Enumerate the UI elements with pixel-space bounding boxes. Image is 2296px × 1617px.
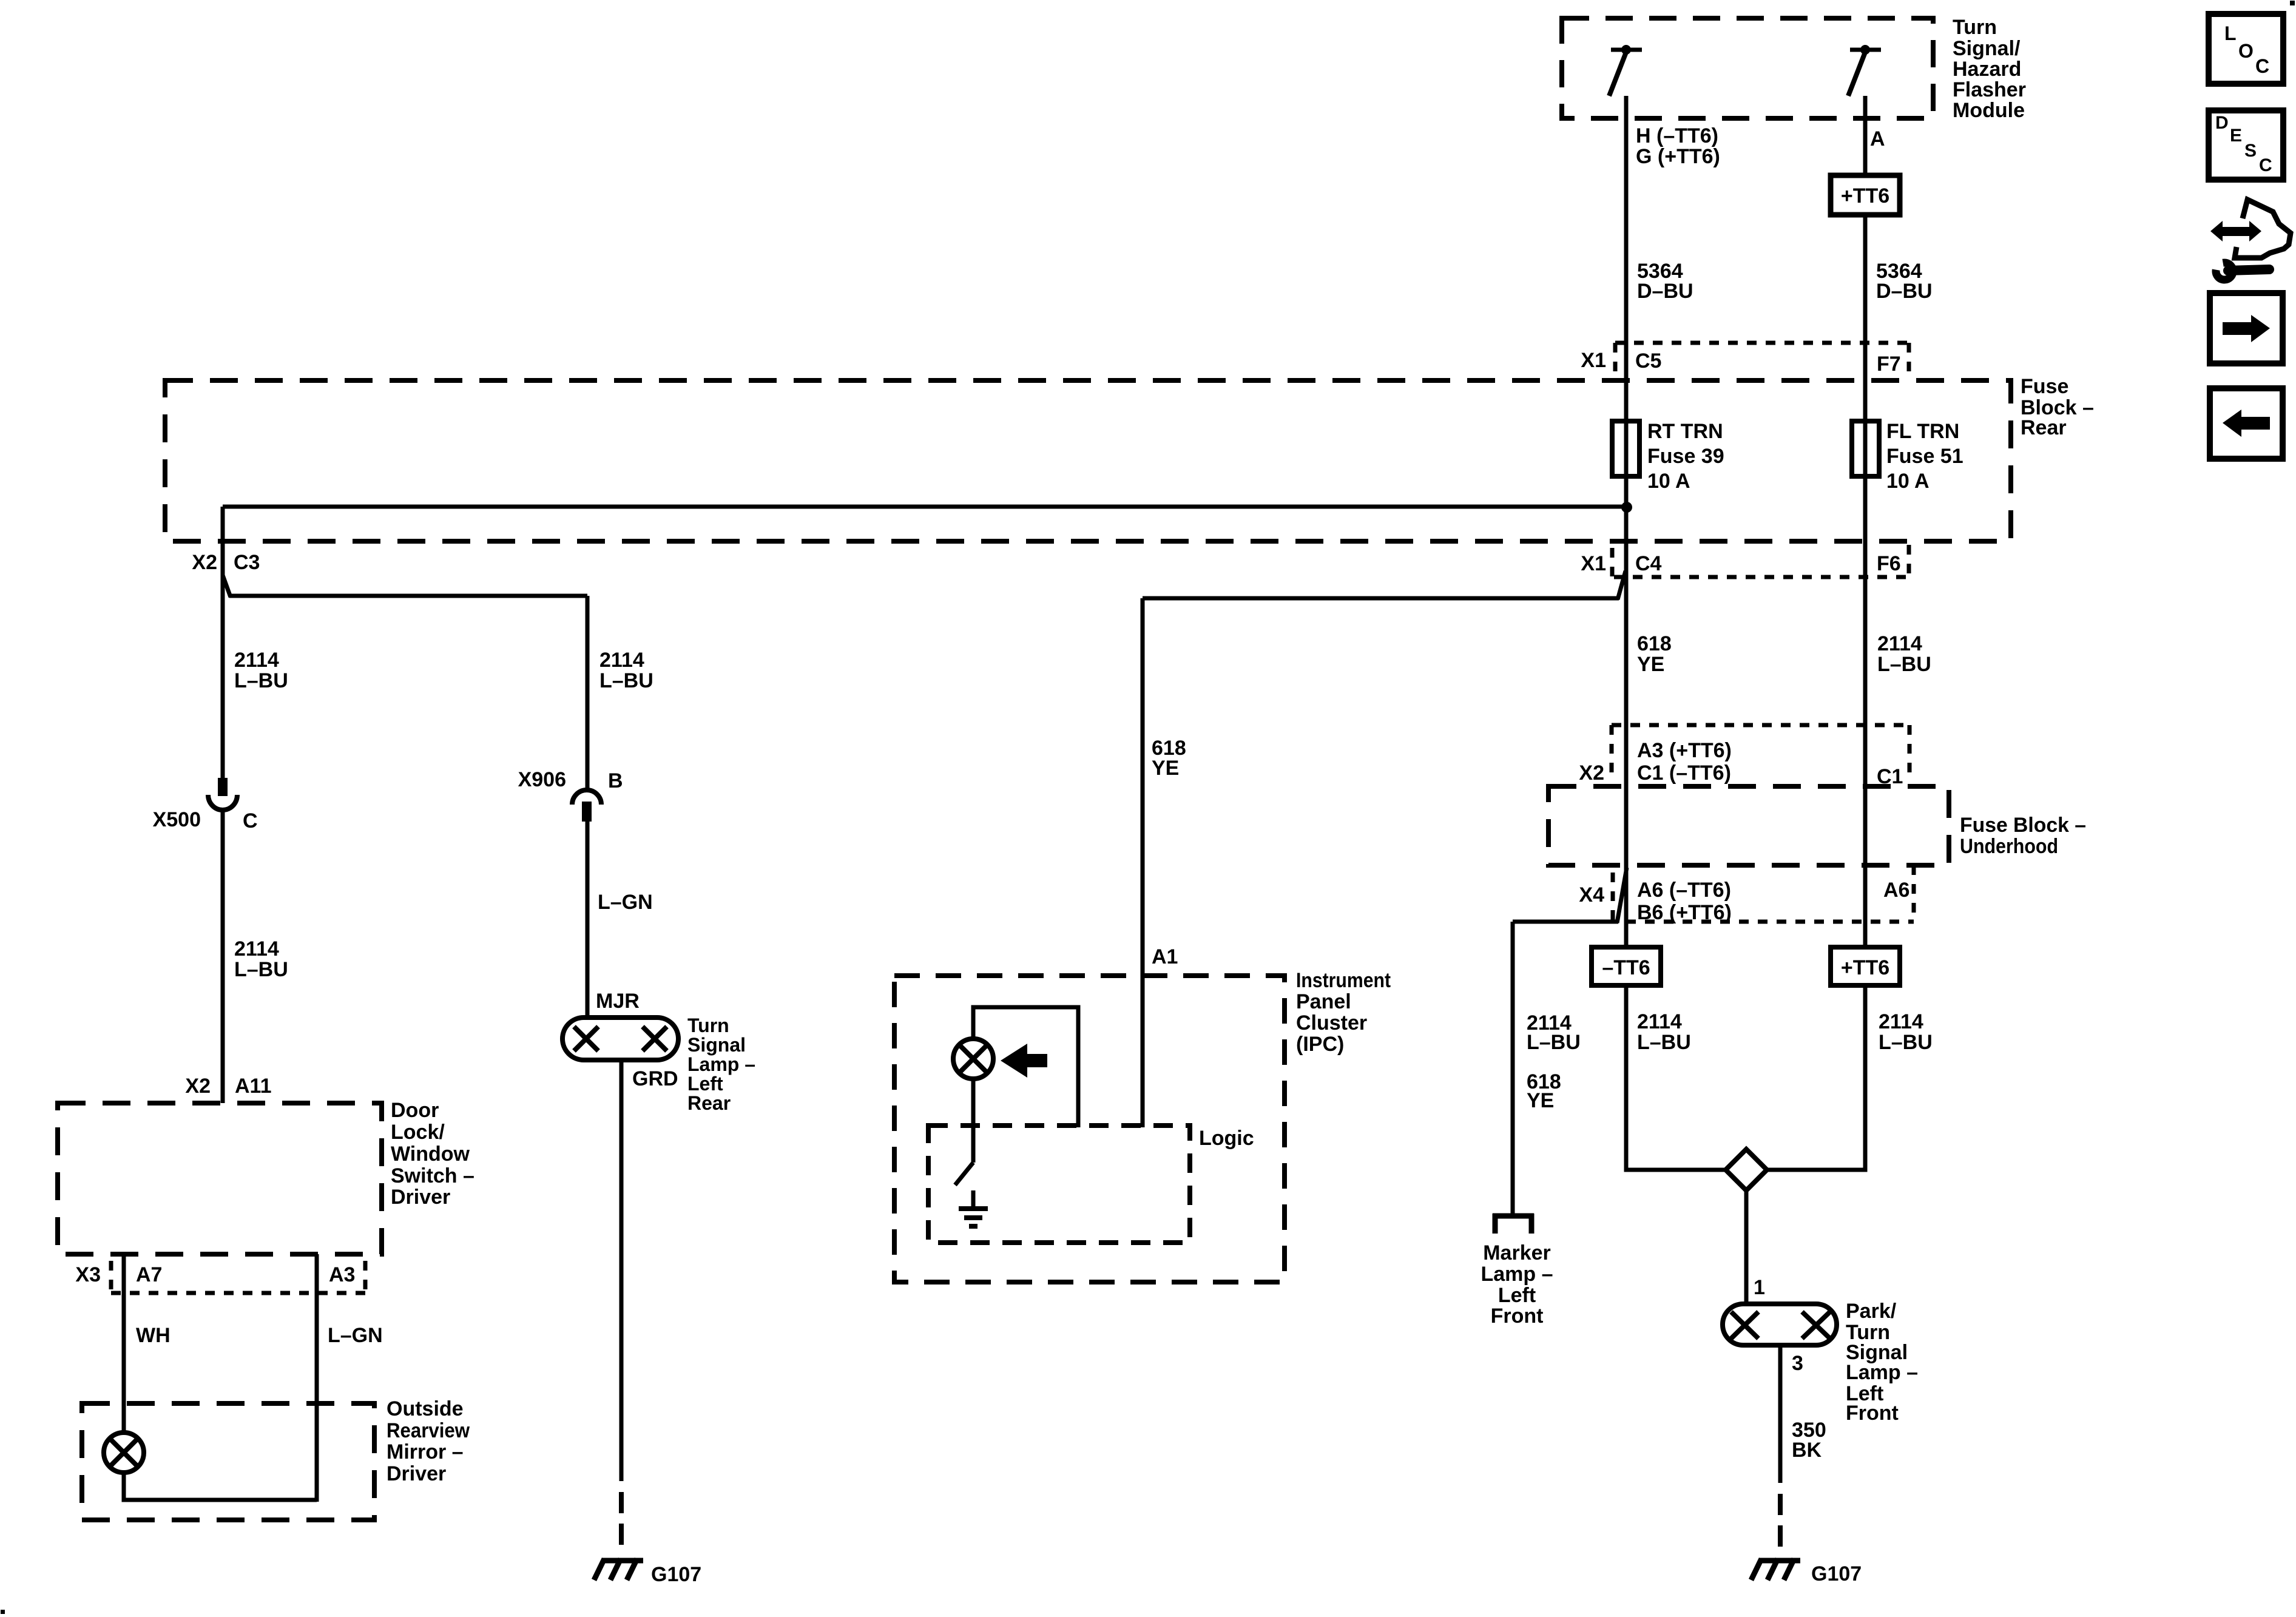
svg-text:Signal/: Signal/ — [1953, 37, 2021, 60]
flasher switch (right output A) — [1848, 45, 1881, 96]
svg-text:Turn: Turn — [1953, 16, 1997, 39]
wire jog: branch to rear lamp — [223, 575, 231, 597]
wire: long feed from fuse block to X2/C3 (left) — [223, 505, 1627, 509]
-TT6 option tag — [1592, 947, 1661, 985]
svg-text:L–BU: L–BU — [234, 958, 288, 981]
wire label 2114 L-BU (below -TT6) — [1637, 1010, 1691, 1054]
svg-text:618: 618 — [1637, 632, 1672, 655]
svg-text:D: D — [2215, 113, 2229, 133]
svg-text:YE: YE — [1152, 757, 1179, 780]
wire label 2114 L-BU (to A11) — [234, 937, 288, 981]
svg-text:X2: X2 — [1579, 761, 1604, 785]
svg-text:3: 3 — [1792, 1352, 1803, 1375]
svg-text:2114: 2114 — [234, 937, 279, 960]
ground lead (dashed) — [1778, 1494, 1783, 1553]
wire label 618 YE (below C4) — [1637, 632, 1672, 676]
wire: IPC A1 internal to logic — [973, 1007, 1078, 1127]
svg-text:Left: Left — [1498, 1284, 1536, 1307]
wire: mirror lamp return — [124, 1473, 317, 1500]
svg-text:D–BU: D–BU — [1876, 280, 1933, 303]
wire: C3 down to X500 — [221, 507, 225, 779]
wire: lamp pin 3 to ground lead — [1778, 1345, 1783, 1483]
wire: lamp to logic switch — [971, 1079, 976, 1163]
Logic box — [928, 1126, 1254, 1243]
Park/Turn Signal Lamp - Left Front (dual filament bulb) — [1723, 1304, 1837, 1345]
svg-text:Marker: Marker — [1483, 1241, 1551, 1264]
svg-text:C: C — [243, 809, 258, 832]
wire: right flasher output down to +TT6 tag — [1863, 96, 1868, 175]
svg-text:C: C — [2255, 55, 2269, 77]
connector X2 row A3/C1 (dotted) — [1612, 725, 1909, 781]
chassis ground (logic) — [959, 1190, 988, 1226]
svg-text:Outside: Outside — [387, 1397, 464, 1420]
turn indicator lamp (IPC) — [953, 1039, 993, 1079]
corner mark (bottom left) — [1, 1610, 5, 1614]
svg-text:Fuse 39: Fuse 39 — [1647, 445, 1724, 468]
svg-text:L–BU: L–BU — [599, 669, 653, 692]
Instrument Panel Cluster (IPC) box — [894, 969, 1391, 1282]
connector X1 row C5/F7 (dotted) — [1615, 343, 1909, 379]
svg-text:Fuse 51: Fuse 51 — [1886, 445, 1963, 468]
svg-text:S: S — [2244, 141, 2257, 161]
marker lamp terminal — [1493, 1214, 1534, 1234]
wire label 2114 L-BU (left of branch) — [234, 649, 288, 692]
svg-text:Cluster: Cluster — [1296, 1011, 1367, 1035]
fuse RT TRN Fuse 39 10 A — [1612, 420, 1724, 493]
label Park/Turn Signal Lamp - Left Front — [1846, 1300, 1918, 1425]
svg-text:FL TRN: FL TRN — [1886, 420, 1959, 443]
svg-text:A7: A7 — [136, 1263, 162, 1286]
connector X1 row C4/F6 (dotted) — [1612, 545, 1909, 577]
svg-text:L–BU: L–BU — [1877, 653, 1931, 676]
back (left arrow) button — [2210, 388, 2283, 459]
inline connector X906 pin B — [572, 790, 601, 822]
svg-text:+TT6: +TT6 — [1841, 956, 1889, 979]
svg-text:Driver: Driver — [391, 1186, 450, 1209]
wire: X500 down to door switch — [221, 810, 225, 1103]
svg-text:2114: 2114 — [599, 649, 644, 672]
svg-text:Lock/: Lock/ — [391, 1121, 445, 1144]
svg-text:D–BU: D–BU — [1637, 280, 1693, 303]
svg-text:–TT6: –TT6 — [1602, 956, 1650, 979]
svg-text:Turn: Turn — [687, 1014, 729, 1036]
turn arrow indicator — [1001, 1044, 1047, 1078]
svg-text:Window: Window — [391, 1143, 470, 1166]
svg-text:L–BU: L–BU — [1527, 1031, 1581, 1054]
svg-text:Left: Left — [687, 1073, 723, 1095]
svg-text:Flasher: Flasher — [1953, 78, 2026, 101]
svg-text:A11: A11 — [235, 1075, 272, 1098]
wire: rear lamp GRD down — [620, 1060, 624, 1481]
flasher switch (left output H/G) — [1609, 45, 1642, 96]
svg-text:1: 1 — [1754, 1276, 1765, 1299]
wire: A3 to mirror lamp return — [315, 1254, 319, 1502]
wire: -TT6 tag down and right to splice — [1626, 985, 1728, 1170]
svg-text:A: A — [1870, 127, 1885, 150]
service icon (part outline, double arrow, wrench) — [2210, 200, 2291, 280]
wire jog: C4 branch to IPC — [1618, 571, 1626, 599]
splice diamond — [1726, 1149, 1767, 1190]
svg-text:L–BU: L–BU — [1879, 1031, 1933, 1054]
svg-text:X2: X2 — [185, 1075, 211, 1098]
svg-text:X1: X1 — [1581, 552, 1606, 575]
svg-text:Fuse: Fuse — [2021, 375, 2068, 398]
svg-text:X1: X1 — [1581, 349, 1606, 372]
svg-text:(IPC): (IPC) — [1296, 1033, 1344, 1056]
Turn Signal Lamp - Left Rear (bulb) — [562, 1018, 678, 1060]
wire label 2114 L-BU (marker branch) — [1527, 1011, 1581, 1054]
connector X4 row A6/B6 (dotted) — [1613, 865, 1914, 922]
svg-text:C3: C3 — [234, 551, 260, 574]
wire label 350 BK — [1792, 1419, 1826, 1462]
svg-text:10 A: 10 A — [1647, 470, 1690, 493]
mirror turn signal lamp — [104, 1433, 144, 1473]
svg-text:RT TRN: RT TRN — [1647, 420, 1723, 443]
fuse FL TRN Fuse 51 10 A — [1852, 420, 1963, 493]
svg-text:C1 (–TT6): C1 (–TT6) — [1637, 761, 1731, 785]
Door Lock/Window Switch - Driver box — [58, 1099, 474, 1254]
svg-text:Rear: Rear — [2021, 416, 2067, 439]
svg-text:X3: X3 — [75, 1263, 101, 1286]
+TT6 option tag — [1831, 175, 1900, 215]
svg-text:WH: WH — [136, 1324, 171, 1347]
svg-text:C5: C5 — [1635, 349, 1661, 373]
svg-text:10 A: 10 A — [1886, 470, 1930, 493]
svg-text:Lamp –: Lamp – — [1846, 1361, 1918, 1384]
svg-text:F6: F6 — [1877, 552, 1901, 575]
wire label 618 YE (marker branch) — [1527, 1070, 1561, 1112]
wire: +TT6 tag down to fuse FL TRN — [1863, 215, 1868, 485]
svg-text:Switch –: Switch – — [391, 1164, 474, 1187]
Turn Signal/Hazard Flasher Module box — [1562, 16, 2026, 122]
ground symbol G107 (right) — [1751, 1559, 1800, 1580]
svg-text:A3 (+TT6): A3 (+TT6) — [1637, 739, 1732, 762]
ground lead (dashed, left) — [619, 1492, 624, 1553]
wire label 5364 D-BU (left) — [1637, 260, 1693, 303]
svg-text:C4: C4 — [1635, 552, 1662, 575]
svg-text:A6 (–TT6): A6 (–TT6) — [1637, 879, 1731, 902]
svg-text:L–BU: L–BU — [1637, 1031, 1691, 1054]
svg-text:A1: A1 — [1152, 945, 1178, 968]
LOC button — [2209, 14, 2283, 84]
wire label 5364 D-BU (right) — [1876, 260, 1933, 303]
svg-text:B6 (+TT6): B6 (+TT6) — [1637, 901, 1732, 924]
svg-text:O: O — [2238, 40, 2254, 62]
svg-text:C: C — [2259, 155, 2272, 175]
wire: down to IPC pin A1 — [1141, 598, 1145, 1127]
ground symbol G107 (left) — [594, 1559, 643, 1580]
svg-text:YE: YE — [1527, 1089, 1554, 1112]
svg-text:X2: X2 — [192, 551, 217, 574]
wire: marker lamp branch horizontal — [1513, 920, 1618, 924]
svg-text:E: E — [2230, 126, 2242, 146]
svg-text:A6: A6 — [1883, 879, 1909, 902]
svg-text:L–GN: L–GN — [328, 1324, 383, 1347]
svg-text:Module: Module — [1953, 99, 2025, 122]
svg-text:2114: 2114 — [1877, 632, 1922, 655]
svg-text:Underhood: Underhood — [1960, 835, 2058, 858]
svg-text:Instrument: Instrument — [1296, 969, 1391, 992]
svg-text:Rear: Rear — [687, 1092, 731, 1114]
svg-text:L: L — [2224, 22, 2237, 44]
wire: horizontal run to IPC A1 — [1143, 596, 1619, 601]
svg-text:Park/: Park/ — [1846, 1300, 1897, 1323]
wire: RT TRN fuse down through C4 to -TT6 tag — [1624, 482, 1629, 947]
wire label 2114 L-BU (below +TT6) — [1879, 1010, 1933, 1054]
svg-text:L–BU: L–BU — [234, 669, 288, 692]
svg-text:YE: YE — [1637, 653, 1664, 676]
svg-text:X500: X500 — [153, 808, 201, 831]
svg-text:L–GN: L–GN — [598, 891, 653, 914]
Outside Rearview Mirror - Driver box — [82, 1397, 470, 1520]
svg-text:Fuse Block –: Fuse Block – — [1960, 814, 2086, 837]
svg-text:Signal: Signal — [687, 1034, 746, 1056]
svg-text:BK: BK — [1792, 1439, 1822, 1462]
svg-text:A3: A3 — [329, 1263, 355, 1286]
DESC button — [2209, 110, 2283, 180]
svg-text:Lamp –: Lamp – — [687, 1053, 755, 1075]
svg-text:Logic: Logic — [1199, 1127, 1254, 1150]
label Marker Lamp - Left Front — [1481, 1241, 1553, 1328]
svg-text:Door: Door — [391, 1099, 439, 1122]
svg-text:2114: 2114 — [234, 649, 279, 672]
wire label 618 YE (IPC feed) — [1152, 737, 1186, 780]
wire: splice down to park/turn lamp — [1744, 1190, 1749, 1304]
wire: +TT6 tag down and left to splice — [1764, 985, 1865, 1170]
svg-text:2114: 2114 — [1879, 1010, 1923, 1033]
svg-text:Mirror –: Mirror – — [387, 1440, 464, 1463]
svg-text:Hazard: Hazard — [1953, 58, 2021, 81]
next (right arrow) button — [2210, 293, 2283, 363]
svg-text:Rearview: Rearview — [387, 1419, 470, 1442]
wire label 2114 L-BU (rear lamp branch) — [599, 649, 653, 692]
svg-text:F7: F7 — [1877, 353, 1901, 376]
svg-text:MJR: MJR — [596, 990, 640, 1013]
svg-text:Front: Front — [1846, 1402, 1899, 1425]
logic switch blade — [955, 1163, 973, 1185]
svg-text:+TT6: +TT6 — [1841, 184, 1889, 208]
label Turn Signal Lamp - Left Rear — [687, 1014, 755, 1114]
svg-text:Front: Front — [1491, 1305, 1544, 1328]
svg-text:Panel: Panel — [1296, 990, 1351, 1013]
wire: left flasher output down to fuse RT TRN — [1624, 96, 1629, 485]
wire jog: X4 branch to marker lamp — [1617, 868, 1627, 923]
inline connector X500 pin C — [208, 778, 237, 810]
wire: FL TRN fuse down through F6 to +TT6 tag — [1863, 482, 1868, 947]
Fuse Block - Rear box — [165, 375, 2094, 541]
+TT6 option tag (lower) — [1831, 947, 1900, 985]
svg-text:X906: X906 — [518, 768, 566, 791]
svg-text:Driver: Driver — [387, 1462, 446, 1485]
svg-text:G107: G107 — [1811, 1562, 1862, 1585]
wire: X906 down to rear lamp — [586, 820, 590, 1018]
svg-text:Lamp –: Lamp – — [1481, 1263, 1553, 1286]
svg-text:G (+TT6): G (+TT6) — [1636, 145, 1720, 168]
svg-text:G107: G107 — [651, 1563, 701, 1586]
connector X3 row A7/A3 (dotted) — [111, 1261, 365, 1293]
wire: branch down to X906 — [586, 596, 590, 790]
svg-text:X4: X4 — [1579, 883, 1604, 906]
svg-text:H (–TT6): H (–TT6) — [1636, 124, 1718, 147]
junction dot at RT TRN output — [1621, 502, 1632, 513]
wire: horizontal branch to X906 — [229, 594, 587, 598]
svg-text:GRD: GRD — [632, 1067, 678, 1090]
svg-text:2114: 2114 — [1637, 1010, 1682, 1033]
svg-text:B: B — [608, 769, 623, 792]
wire: marker lamp branch down — [1511, 922, 1515, 1215]
wire: A7 to mirror lamp — [122, 1254, 126, 1434]
corner mark (top right) — [2290, 1, 2295, 5]
pin labels H (-TT6) / G (+TT6) — [1636, 124, 1720, 168]
Fuse Block - Underhood box — [1548, 786, 2086, 865]
wire label 2114 L-BU (below F6) — [1877, 632, 1931, 676]
